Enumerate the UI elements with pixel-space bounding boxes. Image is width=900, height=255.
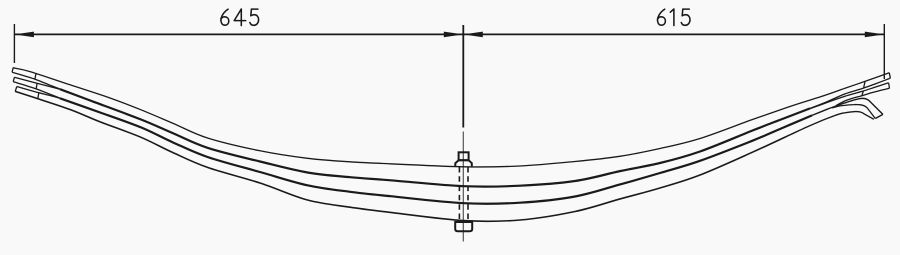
leaf 1 bottom tip left [12,72,60,89]
dimension line [14,33,884,35]
leaf 3 bottom edge [15,91,790,221]
leaf 3 tick left [38,92,39,98]
leaf 3 top edge before hook [832,105,875,119]
leaf 1 tick left [35,74,36,79]
leaf 2 end cap left [13,77,14,81]
leaf 1 end cap left [12,68,13,73]
bolt nut bottom [455,222,472,231]
leaf1/leaf2 interface end [809,107,811,109]
hook tip cap [875,114,883,118]
arrow right inner [463,32,483,38]
arrow left outer [14,32,34,38]
bolt head top [459,152,469,160]
extension line right [883,24,885,79]
leaf 3 end cap left [15,87,17,92]
leaf 2 end cap right [888,83,891,89]
leaf 2 tick left [35,83,38,88]
dimension text 615 [657,9,690,26]
bolt head flange [455,160,472,166]
leaf 1 end cap right [889,73,890,79]
arrow left inner [444,32,464,38]
leaf 2 bottom tip left [13,82,60,99]
leaf 2 bottom tip right [836,88,890,105]
dimension text 645 [221,9,259,26]
centerline lower [462,132,464,242]
leaf 2 top tip left [14,77,60,89]
leaf 1 tick right [864,81,865,87]
extension line left [13,24,15,63]
leaf 2 top tip right [810,83,889,109]
center extension line [462,25,464,128]
leaf 3 top tip left [17,87,60,99]
leaf 3 bottom end and hook outer edge [790,112,874,135]
bolt shaft hidden right [467,167,469,222]
leaf1/leaf2 interface [60,89,810,186]
leaf 1 top edge [13,68,889,167]
leaf2/leaf3 interface end and hook inner edge [812,98,883,115]
arrow right outer [865,32,885,38]
leaf 2 tick right [862,91,864,96]
bolt shaft hidden left [458,167,460,222]
leaf 1 bottom tip right [810,78,890,108]
leaf2/leaf3 interface [60,98,812,204]
